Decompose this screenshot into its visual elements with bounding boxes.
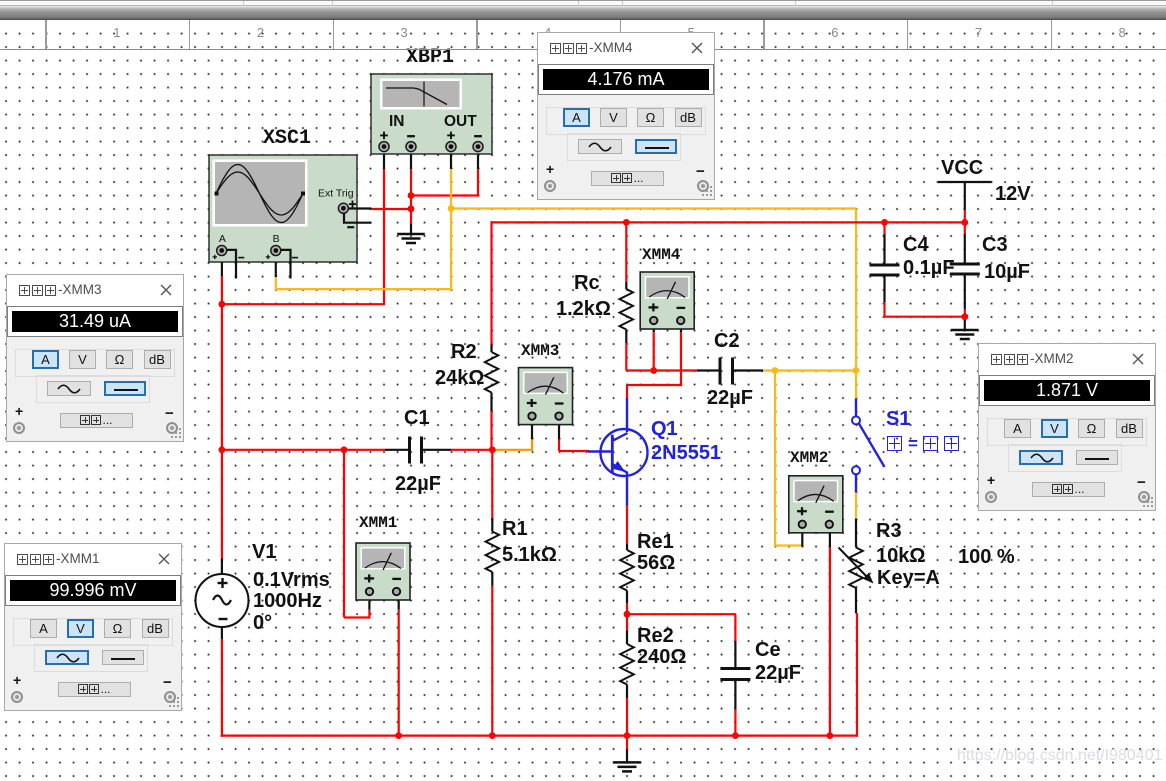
- svg-text:OUT: OUT: [444, 113, 477, 130]
- svg-text:A: A: [219, 233, 226, 245]
- svg-text:Ext Trig: Ext Trig: [318, 188, 354, 200]
- svg-text:IN: IN: [389, 113, 405, 130]
- svg-text:B: B: [273, 233, 280, 245]
